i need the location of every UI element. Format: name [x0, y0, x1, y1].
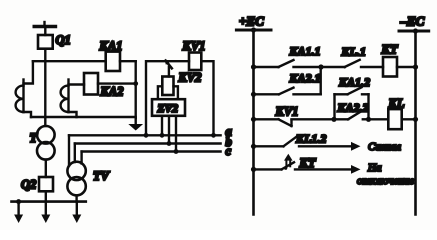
wire KA1 to ground vertical	[120, 60, 136, 62]
node row1 left	[251, 64, 256, 69]
svg-text:KA2.2: KA2.2	[337, 100, 369, 114]
node branch right	[366, 117, 371, 122]
wire KV2 top lead	[168, 67, 170, 77]
wire top horizontal line to KA1	[33, 60, 106, 62]
wire right rail	[414, 31, 417, 215]
node KV left on line a	[144, 133, 149, 138]
relay coil KL	[388, 109, 401, 129]
node row1 mid	[318, 64, 323, 69]
node ZV2 lead1 on a	[160, 133, 165, 138]
node row3 right	[413, 117, 418, 122]
relay coil KT	[383, 57, 397, 77]
arrow to trip	[351, 165, 361, 174]
node row4 left	[251, 144, 256, 149]
wire to KL	[369, 118, 389, 120]
contact KL.1	[321, 60, 383, 67]
wire KA2 right lead	[98, 82, 136, 84]
wire ZV2 lead 2	[168, 116, 170, 144]
svg-text:KA2: KA2	[100, 85, 124, 99]
wire Q1 top lead	[44, 27, 46, 36]
wire KA2 left lead	[69, 83, 85, 85]
wire ZV2 lead 3	[175, 116, 177, 152]
svg-text:KT: KT	[381, 43, 399, 57]
relay coil KA2	[84, 73, 98, 95]
contact KA2.1	[254, 88, 321, 95]
transformer T	[37, 126, 55, 160]
wire KL to rail	[402, 118, 416, 120]
svg-text:KL1.2: KL1.2	[295, 132, 326, 146]
svg-text:KV1: KV1	[275, 105, 299, 119]
wire CT1 bottom	[24, 112, 32, 117]
wire KV left vertical	[146, 61, 189, 135]
svg-text:KA1.1: KA1.1	[289, 44, 321, 58]
node bottom bus tap	[16, 199, 21, 204]
relay KV2	[162, 77, 173, 96]
ground	[128, 118, 143, 131]
wire row2 up to row1	[320, 67, 322, 94]
wire TV to bottom bus	[75, 195, 77, 201]
svg-text:KV1: KV1	[182, 39, 206, 53]
CT TA1 winding	[22, 80, 24, 113]
KV2 pedestal	[158, 86, 178, 99]
wire left rail	[252, 30, 255, 215]
svg-text:KL: KL	[388, 96, 405, 110]
node KV right on line a	[211, 133, 216, 138]
node row1 right	[413, 64, 418, 69]
svg-text:отключение: отключение	[357, 175, 414, 187]
busbar stub above Q1	[34, 22, 55, 27]
arrow to signal	[351, 142, 361, 151]
wire ZV2 lead 1	[161, 116, 163, 136]
svg-text:KA1: KA1	[99, 39, 123, 53]
svg-text:+EC: +EC	[239, 14, 264, 29]
relay coil KA1	[106, 52, 120, 71]
svg-text:На: На	[367, 162, 382, 174]
wire parallel branch right	[367, 94, 369, 119]
bus -EC	[399, 30, 429, 33]
svg-text:KL.1: KL.1	[341, 45, 366, 59]
wire TV lead phase b	[74, 144, 76, 163]
terminal block ZV2	[152, 99, 185, 116]
svg-text:KV2: KV2	[178, 70, 202, 84]
node branch left	[331, 117, 336, 122]
node row5 left	[251, 167, 256, 172]
wire parallel branch left	[333, 94, 335, 119]
svg-text:Q1: Q1	[56, 33, 71, 47]
wire line b	[75, 142, 221, 144]
node ZV2 lead3 on c	[174, 149, 179, 154]
wire Q2 to bottom bus	[45, 191, 47, 201]
node KA2-ground junction	[133, 81, 138, 86]
wire row5 to arrow	[295, 168, 352, 170]
breaker Q2	[39, 177, 53, 191]
contact KA1.1	[254, 60, 322, 67]
voltage transformer TV	[67, 162, 85, 196]
breaker Q1	[38, 35, 53, 49]
svg-text:Q2: Q2	[21, 178, 36, 192]
wire bottom bus	[12, 200, 86, 203]
contact KV1	[254, 119, 335, 126]
wire CT1 lead	[24, 61, 33, 83]
wire TV lead phase a	[68, 135, 70, 165]
node ZV2 lead2 on b	[167, 141, 172, 146]
contact KL1.2	[254, 136, 353, 146]
svg-text:KT: KT	[299, 156, 317, 170]
wire main feeder vertical	[44, 49, 46, 126]
wire line a	[69, 134, 221, 136]
feeder arrow 3	[72, 202, 81, 223]
svg-text:c: c	[226, 144, 232, 158]
svg-text:Сигнал: Сигнал	[368, 141, 401, 153]
node row2 left	[251, 92, 256, 97]
svg-text:TV: TV	[93, 169, 111, 183]
wire TV lead phase c	[80, 152, 82, 164]
wire ground bus	[31, 116, 136, 118]
wire ground vertical	[134, 61, 136, 118]
bus +EC	[236, 29, 271, 32]
CT TA2 winding	[67, 80, 69, 113]
contact KA1.2	[335, 87, 369, 94]
svg-text:KA2.1: KA2.1	[289, 71, 321, 85]
wire T to Q2	[45, 160, 47, 177]
wire line c	[82, 150, 221, 152]
svg-text:ZV2: ZV2	[157, 103, 179, 115]
node row3 left	[251, 117, 256, 122]
node +EC	[251, 27, 256, 32]
wire KT to rail	[397, 66, 416, 68]
wire KV1 right lead	[201, 61, 213, 135]
contact KT time-delay	[254, 154, 295, 170]
tap tick to KV2	[166, 61, 172, 69]
contact KA2.2	[334, 110, 369, 119]
wire CT2 bottom	[69, 112, 77, 117]
node -EC	[413, 28, 418, 33]
svg-text:–EC: –EC	[400, 14, 425, 29]
relay KV1	[189, 53, 201, 71]
svg-text:KA1.2: KA1.2	[338, 75, 370, 89]
feeder arrow 1	[14, 202, 23, 223]
feeder arrow 2	[41, 202, 50, 223]
